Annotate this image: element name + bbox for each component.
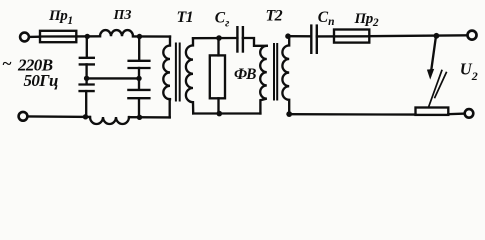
wire slider arm from J10: [431, 36, 436, 71]
node junction J5: [83, 114, 88, 119]
node junction J11: [286, 111, 292, 117]
node junction J1: [85, 34, 90, 39]
wire: [76, 35, 100, 37]
arrowhead of slider: [427, 69, 434, 80]
wire: [133, 35, 170, 38]
transformer T2 secondary winding: [282, 36, 289, 114]
svg-text:ФВ: ФВ: [234, 66, 256, 83]
terminal output top-right: [468, 31, 477, 40]
wire: [129, 116, 170, 119]
fuse Pr1: [40, 31, 76, 42]
block FV (ferroresonant element): [210, 55, 225, 98]
inductor L1 top of filter PZ: [100, 30, 133, 36]
terminal input bottom-left: [19, 112, 28, 121]
capacitor branch C3 C4 of filter: [128, 37, 149, 118]
svg-text:Т1: Т1: [177, 9, 193, 26]
wire fuse Pr2 to output: [369, 34, 467, 37]
wire bottom of tank loop: [193, 112, 260, 114]
node junction J2: [137, 34, 142, 39]
capacitor Cg plates: [237, 27, 243, 51]
node junction J3: [84, 76, 89, 81]
fuse Pr2: [334, 30, 369, 43]
wire: [29, 36, 40, 39]
resistor load U2 body: [416, 108, 449, 115]
wire top of tank loop: [193, 37, 237, 40]
svg-text:50Гц: 50Гц: [24, 71, 58, 90]
wire FV to bottom rail: [217, 98, 219, 113]
wire bottom left rail: [28, 115, 90, 118]
wire riser to T1 primary: [169, 99, 171, 117]
transformer T2 core: [274, 44, 277, 100]
transformer T1 secondary winding: [186, 38, 193, 113]
node junction J9: [285, 33, 291, 39]
node junction J10: [434, 33, 440, 39]
terminal input top-left: [20, 33, 29, 42]
slider stroke 2: [435, 73, 447, 98]
wire drop to FV box: [217, 38, 219, 55]
wire bottom right rail: [289, 113, 415, 116]
node junction J6: [137, 115, 142, 120]
transformer T1 core: [176, 44, 180, 101]
capacitor Cp plates: [311, 26, 317, 53]
slider stroke 1: [428, 71, 441, 108]
wire T2 secondary to Cp: [288, 35, 311, 37]
capacitor branch C1 C2 of filter: [80, 36, 94, 116]
transformer T1 primary winding: [163, 37, 170, 100]
node junction J8: [217, 111, 223, 117]
svg-text:Т2: Т2: [266, 7, 283, 24]
wire Cp to fuse Pr2: [317, 35, 370, 37]
svg-text:~: ~: [2, 54, 12, 73]
inductor L2 bottom of filter PZ: [90, 117, 129, 124]
terminal output bottom-right: [465, 109, 474, 118]
node junction J7: [216, 35, 222, 41]
wire middle connector of filter: [87, 77, 139, 79]
wire to terminal: [448, 112, 464, 115]
transformer T2 primary winding: [260, 46, 267, 114]
svg-text:ПЗ: ПЗ: [113, 8, 132, 23]
node junction J4: [136, 76, 141, 81]
wire Cg to T2 primary: [243, 38, 267, 46]
